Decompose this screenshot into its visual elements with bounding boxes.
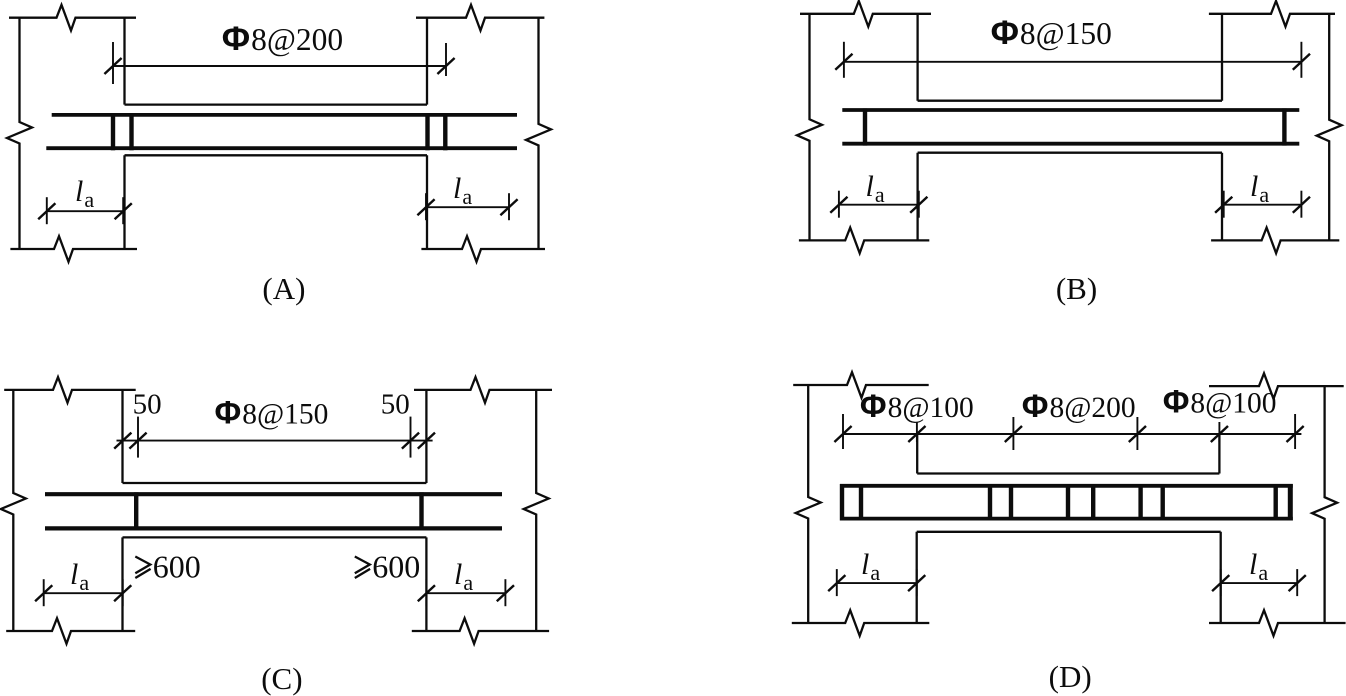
panel C left wall outer line (1, 390, 26, 631)
svg-text:Φ8@200: Φ8@200 (222, 20, 343, 58)
panel C right wall top line (414, 377, 552, 403)
panel C dim tick 50 left (129, 417, 146, 458)
panel B left end bar (863, 108, 867, 145)
svg-text:(A): (A) (262, 271, 305, 306)
panel B slab bottom surface line (918, 152, 1222, 154)
panel A right support bar 2 (443, 113, 447, 150)
panel D left la left tick (828, 569, 845, 596)
panel B bottom rebar line (842, 142, 1299, 146)
panel B left wall outer line (797, 14, 822, 241)
panel C right la dimension line (426, 592, 505, 594)
panel A slab top surface line (125, 103, 428, 105)
panel D right la dimension line (1221, 582, 1298, 584)
panel C right support bar (419, 492, 423, 530)
svg-text:Φ8@100: Φ8@100 (860, 388, 974, 424)
panel C slab bottom surface line (123, 536, 427, 538)
panel C left wall top line (4, 377, 136, 403)
panel D slab bar 5 (1091, 487, 1095, 517)
panel D slab bar 1 (859, 487, 863, 517)
panel B right la right tick (1293, 191, 1310, 218)
panel B top dimension line (844, 61, 1302, 63)
panel A left la dimension line (47, 210, 123, 212)
panel D slab bar 7 (1160, 487, 1164, 517)
panel A right support bar 1 (425, 113, 429, 150)
panel C top rebar line (45, 492, 502, 496)
panel C left la dimension line (44, 592, 123, 594)
svg-text:(C): (C) (261, 661, 302, 696)
panel A bottom rebar line (46, 146, 517, 150)
panel D right la left tick (1212, 569, 1229, 596)
panel D dim tick 5 at right wall face (1211, 422, 1228, 442)
panel D recess right vertical (1218, 434, 1220, 474)
panel B left wall inner line lower (916, 153, 918, 241)
panel A top dimension right tick (437, 43, 454, 76)
panel C geq sign left (135, 557, 150, 579)
panel D top dimension line (843, 433, 1301, 435)
panel A top dimension line (113, 65, 446, 67)
panel B right wall bottom line (1211, 228, 1339, 254)
panel B left la dimension line (839, 204, 919, 206)
panel D right wall outer line (1312, 386, 1337, 623)
panel D dim tick 3 (1005, 417, 1022, 450)
panel D recess top line (917, 472, 1219, 474)
svg-text:600: 600 (372, 549, 420, 585)
panel C right la left tick (418, 579, 435, 606)
panel D right wall inner line lower (1220, 532, 1222, 623)
panel D dim tick 2 at left wall face (908, 422, 925, 442)
panel A top rebar line (52, 113, 517, 117)
panel A right la left tick (417, 193, 434, 220)
panel D slab top chord (840, 484, 1293, 488)
panel A top dimension left tick (104, 42, 121, 84)
panel C left wall inner line lower (121, 537, 123, 631)
svg-text:la: la (70, 558, 89, 595)
svg-text:50: 50 (381, 388, 410, 420)
svg-text:la: la (453, 172, 472, 209)
panel D left wall bottom line (792, 610, 930, 636)
panel C top dimension line (117, 440, 433, 442)
svg-text:la: la (454, 558, 473, 595)
svg-text:(B): (B) (1056, 271, 1097, 306)
panel C left wall bottom line (6, 618, 135, 644)
svg-text:la: la (861, 548, 880, 585)
panel D right wall bottom line (1209, 610, 1346, 636)
panel B right la left tick (1215, 191, 1232, 218)
panel C right wall outer line (524, 390, 549, 631)
panel D right la right tick (1289, 569, 1306, 596)
panel D slab bar 3 (1009, 487, 1013, 517)
panel B right wall inner line upper (1221, 14, 1223, 101)
svg-text:Φ8@200: Φ8@200 (1022, 388, 1136, 424)
panel B left la right tick (910, 191, 927, 218)
panel A right wall inner line lower (426, 155, 428, 249)
panel D left la right tick (908, 569, 925, 596)
panel B left la left tick (830, 191, 847, 218)
panel A left support bar 2 (129, 113, 133, 150)
panel B slab top surface line (918, 100, 1222, 102)
panel D left wall outer line (796, 385, 821, 623)
panel D dim tick 6 (1287, 414, 1304, 449)
panel A right wall inner line upper (426, 18, 428, 105)
panel A right wall bottom line (421, 236, 545, 262)
panel C left la left tick (35, 579, 52, 606)
svg-text:600: 600 (153, 549, 201, 585)
panel D left la dimension line (837, 582, 917, 584)
panel A left la left tick (38, 197, 55, 224)
panel A left support bar 1 (111, 113, 115, 150)
svg-text:Φ8@150: Φ8@150 (215, 394, 329, 430)
panel D slab bar 4 (1066, 487, 1070, 517)
svg-text:50: 50 (133, 388, 162, 420)
panel A right la dimension line (426, 206, 509, 208)
panel C dim slash at left wall face (114, 433, 131, 449)
panel C slab top surface line (123, 482, 427, 484)
panel B right wall inner line lower (1221, 153, 1223, 241)
panel D dim tick 4 (1129, 417, 1146, 450)
panel C right la right tick (497, 579, 514, 606)
panel B right end bar (1282, 108, 1286, 145)
panel A right wall outer line (526, 18, 551, 249)
panel C left wall inner line upper (121, 390, 123, 483)
panel D slab bar 6 (1138, 487, 1142, 517)
svg-text:Φ8@150: Φ8@150 (991, 14, 1112, 52)
panel B right wall top line (1209, 1, 1335, 27)
panel A left wall top line (9, 5, 136, 31)
panel D slab bottom surface line (917, 531, 1221, 533)
panel D slab right end cap (1288, 484, 1293, 521)
panel C right wall inner line lower (425, 537, 427, 631)
svg-text:la: la (866, 170, 885, 207)
panel A left wall inner line lower (123, 155, 125, 249)
panel B top dimension right tick (1293, 42, 1310, 78)
panel C left la right tick (114, 579, 131, 606)
panel D left wall inner line lower (916, 532, 918, 623)
svg-text:la: la (75, 175, 94, 212)
panel C geq sign right (355, 557, 370, 579)
panel D dim tick 1 (834, 414, 851, 449)
panel C dim slash at right wall face (418, 433, 435, 449)
panel C dim tick 50 right (402, 417, 419, 458)
panel C left support bar (134, 492, 138, 530)
panel B left wall inner line upper (916, 14, 918, 101)
panel B top dimension left tick (835, 42, 852, 78)
panel C right wall bottom line (412, 618, 549, 644)
panel D left wall top line (793, 372, 929, 398)
svg-text:la: la (1249, 548, 1268, 585)
panel A right wall top line (416, 5, 544, 31)
panel A left la right tick (115, 197, 132, 224)
panel B top rebar line (842, 108, 1299, 112)
panel C right wall inner line upper (425, 390, 427, 483)
panel D recess left vertical (916, 434, 918, 474)
panel B right wall outer line (1317, 14, 1342, 241)
panel A slab bottom surface line (125, 154, 428, 156)
panel D slab bar 2 (988, 487, 992, 517)
panel A right la right tick (500, 193, 517, 220)
panel D slab left end cap (840, 484, 844, 521)
panel C bottom rebar line (45, 526, 502, 530)
panel A left wall inner line upper (123, 18, 125, 105)
panel D slab bar 8 (1273, 487, 1277, 517)
panel B left wall bottom line (799, 228, 929, 254)
svg-text:(D): (D) (1049, 659, 1092, 694)
panel D slab bottom chord (840, 517, 1293, 521)
svg-text:Φ8@100: Φ8@100 (1163, 384, 1277, 420)
panel D right wall top line (1209, 373, 1344, 399)
panel A left wall bottom line (10, 236, 137, 262)
panel A left wall outer line (7, 18, 32, 249)
panel B left wall top line (800, 1, 931, 27)
panel B right la dimension line (1224, 204, 1302, 206)
svg-text:la: la (1250, 170, 1269, 207)
